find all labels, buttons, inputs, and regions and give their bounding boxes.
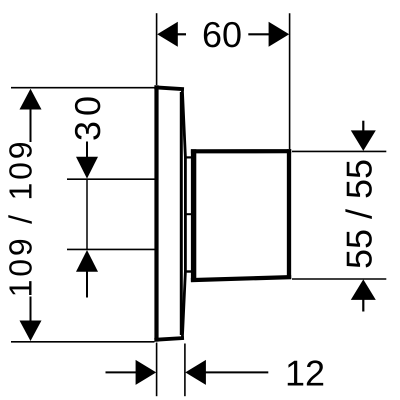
dim30 upper shaft — [86, 142, 88, 159]
dim30 up arrow — [76, 250, 98, 272]
dim12 left arrow — [106, 371, 138, 373]
sleeve center seam — [184, 213, 191, 215]
handle knob (side view) — [191, 149, 291, 282]
dimension 109 / 109 (left) — [3, 88, 155, 342]
sleeve between plate and handle — [184, 157, 193, 271]
plate top edge — [154, 87, 184, 89]
dim55 top arrow — [362, 121, 364, 132]
dim30 down arrow — [76, 157, 98, 179]
dim55 bottom arrow — [351, 279, 376, 300]
dim12 left extension line — [156, 343, 158, 397]
knob left edge — [191, 149, 196, 282]
knob top edge — [191, 149, 291, 153]
dim109 top extension line — [11, 87, 155, 89]
dim60 right arrow — [269, 22, 290, 47]
dim109 bottom arrow — [30, 297, 32, 323]
knob right edge — [287, 149, 291, 279]
svg-text:30: 30 — [67, 91, 108, 141]
svg-text:109 / 109: 109 / 109 — [3, 139, 39, 298]
sleeve top edge — [184, 156, 193, 158]
dimension 60 (top) — [157, 13, 290, 149]
dim60 left arrow — [157, 22, 178, 47]
dim55 top extension line — [292, 150, 386, 152]
dim30 bottom tick line — [67, 248, 155, 250]
sleeve bottom edge — [184, 270, 193, 272]
dim30 middle shaft — [86, 179, 88, 249]
escutcheon plate (side view) — [154, 85, 185, 341]
knob bottom edge — [191, 277, 291, 280]
dim12 right extension line — [184, 344, 186, 397]
plate left edge — [154, 85, 158, 341]
svg-text:12: 12 — [285, 353, 325, 394]
dim30 lower shaft — [86, 271, 88, 298]
dimension 30 (inner left) — [67, 91, 155, 298]
plate right edge silhouette — [182, 89, 185, 340]
dimension 55 / 55 (right) — [292, 121, 386, 312]
dimension 12 (bottom) — [106, 343, 326, 397]
dim12 right arrow — [185, 360, 206, 385]
dim55 bottom extension line — [292, 278, 386, 280]
dim109 bottom extension line — [11, 341, 155, 343]
dim30 top tick line — [67, 178, 155, 180]
plate bottom edge — [154, 338, 184, 340]
dim60 left extension line — [156, 13, 158, 85]
dim60 right extension line — [289, 13, 291, 149]
svg-text:60: 60 — [202, 14, 242, 55]
plate front face contour — [180, 92, 183, 335]
dim109 top arrow — [20, 89, 42, 110]
svg-text:55 / 55: 55 / 55 — [339, 159, 380, 269]
